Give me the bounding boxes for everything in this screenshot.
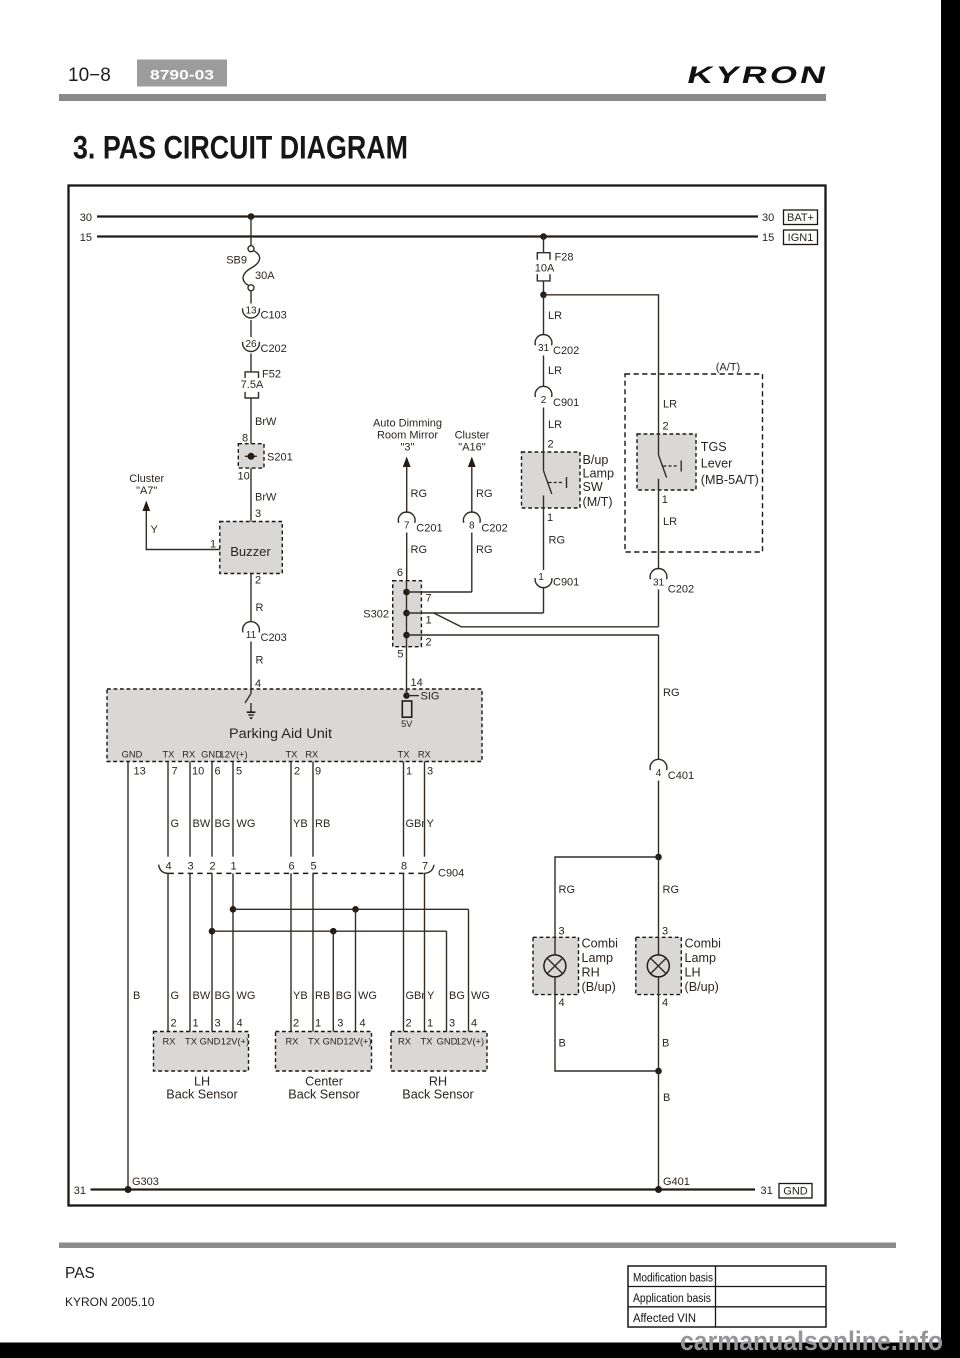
svg-text:(B/up): (B/up) <box>582 980 616 994</box>
svg-text:Combi: Combi <box>685 937 721 951</box>
svg-text:31: 31 <box>538 343 550 354</box>
svg-text:TX: TX <box>185 1037 197 1047</box>
svg-text:2: 2 <box>171 1018 177 1030</box>
diagram border frame <box>69 186 826 1206</box>
connector C202 pin 31 <box>535 335 579 357</box>
(A/T) dashed group box <box>625 362 763 553</box>
svg-text:1: 1 <box>193 1018 199 1030</box>
svg-text:8: 8 <box>469 521 475 532</box>
svg-text:7.5A: 7.5A <box>241 379 264 391</box>
svg-text:C202: C202 <box>668 584 694 596</box>
svg-text:4: 4 <box>656 768 662 779</box>
svg-text:5: 5 <box>236 766 242 778</box>
internal switch slash <box>245 694 251 703</box>
svg-text:Room Mirror: Room Mirror <box>377 430 438 442</box>
svg-text:8: 8 <box>401 861 407 873</box>
wire S302 pin7 to C202-8 <box>407 591 472 593</box>
node SIG <box>403 691 439 703</box>
svg-text:RG: RG <box>663 884 680 896</box>
connector C203 pin 11 <box>243 622 287 644</box>
svg-text:SIG: SIG <box>421 691 440 703</box>
svg-text:1: 1 <box>538 572 544 583</box>
svg-text:TX: TX <box>421 1037 433 1047</box>
wire C901 down to S302 pin1 net <box>543 587 545 613</box>
right edge black strip <box>941 0 960 1358</box>
svg-text:B: B <box>663 1092 670 1104</box>
wire S302 pin5 to unit pin 14 <box>406 647 408 696</box>
svg-text:(A/T): (A/T) <box>716 362 740 374</box>
svg-text:4: 4 <box>471 1018 477 1030</box>
wire branch pin1 to A/T C202-31 <box>434 613 659 627</box>
svg-text:TX: TX <box>162 750 174 760</box>
svg-text:Affected VIN: Affected VIN <box>633 1313 696 1325</box>
sensor pin numbers row <box>171 1018 478 1030</box>
net box GND <box>779 1184 812 1199</box>
wire color labels lower row <box>133 990 490 1002</box>
svg-text:TGS: TGS <box>701 440 727 454</box>
svg-text:RG: RG <box>411 488 428 500</box>
svg-text:LH: LH <box>685 966 701 980</box>
svg-text:6: 6 <box>397 567 403 579</box>
svg-text:G303: G303 <box>132 1176 159 1188</box>
svg-text:C202: C202 <box>261 343 287 355</box>
svg-text:GBr: GBr <box>406 990 426 1002</box>
svg-text:GBr: GBr <box>406 818 426 830</box>
svg-text:Back Sensor: Back Sensor <box>288 1088 359 1102</box>
wire F28 to junction <box>543 281 545 295</box>
junction on bus 30 <box>248 213 255 220</box>
svg-text:TX: TX <box>285 750 297 760</box>
svg-text:G: G <box>171 818 180 830</box>
svg-text:Back Sensor: Back Sensor <box>402 1088 473 1102</box>
wire bus 30 <box>97 215 758 217</box>
svg-text:Modification basis: Modification basis <box>633 1273 713 1285</box>
svg-text:RX: RX <box>182 750 195 760</box>
svg-text:RX: RX <box>305 750 318 760</box>
svg-text:9: 9 <box>315 766 321 778</box>
wire junction to G401 <box>658 1071 660 1190</box>
combi lamp LH (B/up) <box>636 937 682 994</box>
svg-text:6: 6 <box>215 766 221 778</box>
svg-text:12V(+): 12V(+) <box>221 1037 249 1047</box>
wire pin9 RB to C904 <box>312 762 314 857</box>
junction on bus 15 <box>540 233 547 240</box>
svg-text:GND: GND <box>323 1037 344 1047</box>
junction node below F28 <box>540 292 547 299</box>
wire SB9 to C103 <box>250 291 252 304</box>
label B/up Lamp SW (M/T) <box>583 453 615 509</box>
RH back sensor <box>391 1032 487 1072</box>
svg-text:C203: C203 <box>261 632 287 644</box>
wire S302 pin1 to C901-1 (M/T) <box>407 612 544 614</box>
svg-text:Y: Y <box>427 990 435 1002</box>
header rule bar <box>59 94 826 101</box>
revision table <box>628 1266 826 1327</box>
svg-text:(B/up): (B/up) <box>685 980 719 994</box>
svg-text:RX: RX <box>398 1037 411 1047</box>
svg-text:3: 3 <box>255 508 261 520</box>
wire S302 pin2 to back-up lamp feed <box>407 634 659 636</box>
wire pin1 GBr to C904 <box>403 762 405 857</box>
svg-text:PAS: PAS <box>65 1265 95 1282</box>
svg-text:Lamp: Lamp <box>685 951 717 965</box>
wire S302 pin2 down to C401 <box>658 635 660 760</box>
connector C201 pin 7 <box>398 512 442 534</box>
svg-text:2: 2 <box>293 1018 299 1030</box>
wire RB below C904 <box>312 873 314 1031</box>
svg-text:B: B <box>559 1038 566 1050</box>
svg-text:BrW: BrW <box>255 492 277 504</box>
svg-text:1: 1 <box>426 615 432 627</box>
ground symbol inside unit <box>247 703 256 720</box>
connector C202 pin 8 <box>463 512 507 534</box>
section code box 8790-03 <box>137 60 227 87</box>
svg-text:C103: C103 <box>261 310 287 322</box>
wire color labels above C904 <box>171 818 435 830</box>
svg-text:4: 4 <box>662 997 668 1009</box>
wire junction down M/T branch <box>543 295 545 335</box>
svg-text:RG: RG <box>476 488 493 500</box>
svg-text:KYRON 2005.10: KYRON 2005.10 <box>65 1295 155 1309</box>
svg-text:TX: TX <box>398 750 410 760</box>
label TGS Lever (MB-5A/T) <box>701 440 759 487</box>
footer rule bar <box>59 1243 896 1249</box>
svg-text:BG: BG <box>336 990 352 1002</box>
svg-text:BW: BW <box>193 818 211 830</box>
svg-text:12V(+): 12V(+) <box>219 750 247 760</box>
svg-text:4: 4 <box>559 997 565 1009</box>
svg-text:LR: LR <box>548 419 562 431</box>
svg-text:"A7": "A7" <box>136 485 157 497</box>
svg-text:4: 4 <box>165 861 171 873</box>
svg-text:7: 7 <box>426 593 432 605</box>
wire GND pin13 (B) down to G303 <box>127 762 129 1190</box>
svg-text:Application basis: Application basis <box>633 1293 711 1305</box>
wire arrow to C202 <box>471 466 473 513</box>
svg-text:(MB-5A/T): (MB-5A/T) <box>701 473 759 487</box>
svg-text:2: 2 <box>426 637 432 649</box>
wire into TGS lever <box>658 374 660 455</box>
svg-text:Cluster: Cluster <box>129 473 164 485</box>
svg-text:4: 4 <box>255 678 261 690</box>
ground node G401 <box>655 1186 662 1193</box>
svg-text:"3": "3" <box>401 442 415 454</box>
svg-text:(M/T): (M/T) <box>583 495 613 509</box>
svg-text:BG: BG <box>215 990 231 1002</box>
connector C202 pin 26 <box>243 339 287 355</box>
svg-text:S201: S201 <box>267 452 293 464</box>
svg-text:RG: RG <box>476 544 493 556</box>
svg-text:RB: RB <box>315 818 330 830</box>
svg-text:TX: TX <box>308 1037 320 1047</box>
svg-text:30: 30 <box>80 212 92 224</box>
TGS lever switch (MB-5A/T) <box>637 434 696 490</box>
svg-text:10A: 10A <box>535 263 555 275</box>
svg-text:12V(+): 12V(+) <box>343 1037 371 1047</box>
wire from bus 30 to SB9 <box>250 217 252 246</box>
svg-text:4: 4 <box>360 1018 366 1030</box>
svg-text:Y: Y <box>427 818 435 830</box>
svg-text:SW: SW <box>583 480 603 494</box>
fuse F52 7.5A <box>241 369 281 399</box>
svg-text:3: 3 <box>337 1018 343 1030</box>
wire buzzer pin1 to cluster A7 arrow <box>146 510 220 550</box>
svg-text:RX: RX <box>163 1037 176 1047</box>
C904 pin numbers <box>165 861 428 873</box>
svg-text:B/up: B/up <box>583 453 609 467</box>
svg-text:7: 7 <box>404 521 410 532</box>
wire junction to A/T branch <box>544 295 659 374</box>
svg-text:YB: YB <box>293 990 308 1002</box>
splice S302 <box>393 581 422 647</box>
wire C201 to S302 pin 6 <box>406 533 408 581</box>
svg-text:Buzzer: Buzzer <box>230 544 271 559</box>
label Combi Lamp LH (B/up) <box>685 937 721 995</box>
svg-text:5V: 5V <box>401 719 413 729</box>
unit pin numbers <box>134 766 434 778</box>
wire G below C904 <box>167 873 169 1031</box>
connector C401 pin 4 <box>650 759 694 782</box>
wire BG branch to center and RH sensors <box>212 930 447 932</box>
ground junction node <box>655 1068 662 1075</box>
svg-text:2: 2 <box>663 421 669 433</box>
wire down to LH lamp <box>658 857 660 937</box>
wire C202 to C901 <box>543 356 545 388</box>
wire C103 to C202 <box>250 320 252 337</box>
svg-text:GND: GND <box>783 1186 808 1198</box>
svg-text:Auto Dimming: Auto Dimming <box>373 418 442 430</box>
wire S201 to buzzer <box>250 468 252 521</box>
wire WG below C904 with branch node <box>232 873 234 1031</box>
svg-text:RX: RX <box>286 1037 299 1047</box>
svg-text:B: B <box>133 990 140 1002</box>
svg-text:7: 7 <box>172 766 178 778</box>
svg-text:30: 30 <box>762 212 774 224</box>
svg-text:G401: G401 <box>663 1176 690 1188</box>
svg-text:10: 10 <box>192 766 204 778</box>
svg-text:RG: RG <box>663 687 680 699</box>
svg-text:WG: WG <box>237 818 256 830</box>
svg-text:C202: C202 <box>553 345 579 357</box>
internal wire pin 14 <box>406 689 408 696</box>
LH back sensor <box>154 1032 250 1072</box>
svg-text:1: 1 <box>662 494 668 506</box>
svg-text:IGN1: IGN1 <box>788 232 814 244</box>
svg-text:2: 2 <box>548 439 554 451</box>
svg-text:WG: WG <box>358 990 377 1002</box>
wire C202 down to S302 pin1 horizontal <box>658 590 660 627</box>
svg-text:F52: F52 <box>262 369 281 381</box>
junction node backup lamp feed <box>655 854 662 861</box>
svg-text:5: 5 <box>397 649 403 661</box>
fusible link SB9 30A <box>226 246 275 291</box>
wire YB below C904 <box>290 873 292 1031</box>
svg-text:2: 2 <box>255 575 261 587</box>
label Combi Lamp RH (B/up) <box>582 937 618 995</box>
svg-text:2: 2 <box>541 395 547 406</box>
svg-text:R: R <box>256 602 264 614</box>
wire BG below C904 with branch node <box>211 873 213 1031</box>
svg-text:B: B <box>662 1038 669 1050</box>
svg-text:10: 10 <box>238 471 250 483</box>
svg-text:KYRON: KYRON <box>684 62 831 89</box>
svg-text:"A16": "A16" <box>458 442 485 454</box>
svg-text:G: G <box>171 990 180 1002</box>
svg-text:26: 26 <box>245 339 257 350</box>
svg-text:BG: BG <box>215 818 231 830</box>
svg-text:C904: C904 <box>438 868 464 880</box>
svg-text:15: 15 <box>80 232 92 244</box>
wire buzzer to C203 <box>250 574 252 623</box>
svg-text:Lamp: Lamp <box>582 951 614 965</box>
wire C202 to F52 <box>250 354 252 372</box>
svg-text:11: 11 <box>246 630 257 641</box>
svg-text:2: 2 <box>209 861 215 873</box>
svg-text:C201: C201 <box>416 523 442 535</box>
svg-text:13: 13 <box>134 766 146 778</box>
svg-text:1: 1 <box>315 1018 321 1030</box>
svg-text:1: 1 <box>230 861 236 873</box>
svg-text:Combi: Combi <box>582 937 618 951</box>
connector C901 pin 2 <box>535 386 579 409</box>
wire pin2 YB to C904 <box>290 762 292 857</box>
svg-text:BG: BG <box>449 990 465 1002</box>
arrow to cluster A7 <box>142 501 150 512</box>
svg-text:3: 3 <box>427 766 433 778</box>
wire bus 15 <box>97 235 758 237</box>
svg-text:C401: C401 <box>668 770 694 782</box>
svg-text:Y: Y <box>151 524 159 536</box>
svg-text:3: 3 <box>559 926 565 938</box>
svg-text:RG: RG <box>559 884 576 896</box>
svg-text:carmanualsonline.info: carmanualsonline.info <box>680 1326 943 1356</box>
svg-text:RG: RG <box>549 535 566 547</box>
svg-text:GND: GND <box>437 1037 458 1047</box>
wire pin10 BW to C904 <box>189 762 191 857</box>
svg-text:10−8: 10−8 <box>68 65 111 86</box>
svg-text:14: 14 <box>411 677 423 689</box>
svg-text:5: 5 <box>310 861 316 873</box>
combi lamp RH (B/up) <box>533 937 579 994</box>
wire F52 to S201 <box>250 398 252 444</box>
svg-text:WG: WG <box>237 990 256 1002</box>
svg-text:1: 1 <box>406 766 412 778</box>
connector C901 pin 1 <box>535 572 579 589</box>
splice S201 <box>238 444 292 468</box>
fuse F28 10A <box>535 252 574 281</box>
svg-text:LH: LH <box>194 1075 210 1089</box>
svg-text:1: 1 <box>210 539 216 551</box>
svg-text:RG: RG <box>411 544 428 556</box>
arrow to cluster A16 <box>468 457 476 468</box>
svg-text:30A: 30A <box>255 270 275 282</box>
wire LH lamp down to ground junction <box>658 995 660 1071</box>
svg-text:RH: RH <box>429 1075 447 1089</box>
svg-text:SB9: SB9 <box>226 255 247 267</box>
arrow to auto dimming mirror <box>403 457 411 468</box>
connector C103 pin 13 <box>243 306 287 322</box>
wire pin6 BG to C904 <box>211 762 213 857</box>
svg-text:31: 31 <box>74 1185 86 1197</box>
wire switch to C901 <box>543 508 545 570</box>
svg-text:31: 31 <box>653 578 665 589</box>
svg-text:3: 3 <box>449 1018 455 1030</box>
svg-text:RH: RH <box>582 966 600 980</box>
wire ground bus 31 <box>91 1188 756 1190</box>
svg-text:LR: LR <box>663 516 677 528</box>
pull-up resistor to 5V <box>401 701 413 729</box>
buzzer <box>220 522 282 574</box>
wire branch to RH lamp <box>555 857 659 937</box>
wire C203 to parking aid unit pin 4 <box>250 642 252 690</box>
svg-text:Center: Center <box>305 1075 343 1089</box>
bottom edge black strip <box>0 1343 960 1358</box>
wire C401 to lamp junction <box>658 781 660 858</box>
svg-text:3. PAS CIRCUIT DIAGRAM: 3. PAS CIRCUIT DIAGRAM <box>73 130 408 166</box>
wire GBr below C904 <box>403 873 405 1031</box>
svg-text:4: 4 <box>237 1018 243 1030</box>
svg-text:R: R <box>256 655 264 667</box>
svg-text:3: 3 <box>215 1018 221 1030</box>
parking aid unit box <box>107 689 482 762</box>
connector C904 <box>159 865 465 880</box>
wire WG branch to center and RH sensors <box>233 908 469 910</box>
svg-text:8790-03: 8790-03 <box>150 68 215 83</box>
svg-text:13: 13 <box>245 306 257 317</box>
svg-text:8: 8 <box>242 433 248 445</box>
internal wire pin 4 <box>250 689 252 694</box>
svg-text:C901: C901 <box>553 577 579 589</box>
svg-text:LR: LR <box>548 365 562 377</box>
svg-text:Back Sensor: Back Sensor <box>166 1088 237 1102</box>
svg-text:C901: C901 <box>553 397 579 409</box>
back-up lamp switch (M/T) <box>522 452 581 508</box>
svg-text:GND: GND <box>200 1037 221 1047</box>
svg-text:BAT+: BAT+ <box>787 212 814 224</box>
svg-text:LR: LR <box>548 310 562 322</box>
wire Y below C904 <box>424 873 426 1031</box>
wire pin5 WG to C904 <box>232 762 234 857</box>
svg-text:1: 1 <box>427 1018 433 1030</box>
svg-text:F28: F28 <box>555 252 574 264</box>
svg-text:Lamp: Lamp <box>583 466 615 480</box>
net box IGN1 <box>784 230 818 245</box>
svg-text:LR: LR <box>663 399 677 411</box>
svg-text:GND: GND <box>122 750 143 760</box>
svg-text:S302: S302 <box>363 609 389 621</box>
svg-text:31: 31 <box>761 1185 773 1197</box>
svg-text:YB: YB <box>293 818 308 830</box>
svg-text:RB: RB <box>315 990 330 1002</box>
svg-text:Cluster: Cluster <box>455 430 490 442</box>
svg-text:7: 7 <box>422 861 428 873</box>
svg-text:Parking Aid Unit: Parking Aid Unit <box>229 726 332 741</box>
svg-text:2: 2 <box>406 1018 412 1030</box>
svg-text:12V(+): 12V(+) <box>456 1037 484 1047</box>
svg-text:C202: C202 <box>481 523 507 535</box>
wire C202 down to S302 pin 7 net <box>471 533 473 593</box>
wire RH lamp to ground junction <box>555 995 659 1071</box>
wire pin3 Y to C904 <box>424 762 426 857</box>
svg-text:3: 3 <box>187 861 193 873</box>
wire C901 to B/up lamp switch <box>543 408 545 471</box>
svg-text:6: 6 <box>288 861 294 873</box>
svg-text:BrW: BrW <box>255 416 277 428</box>
wire bus15 to F28 <box>543 237 545 253</box>
connector C202 pin 31 (A/T) <box>650 569 694 596</box>
wire TGS to C202 <box>658 490 660 569</box>
svg-text:1: 1 <box>547 512 553 524</box>
